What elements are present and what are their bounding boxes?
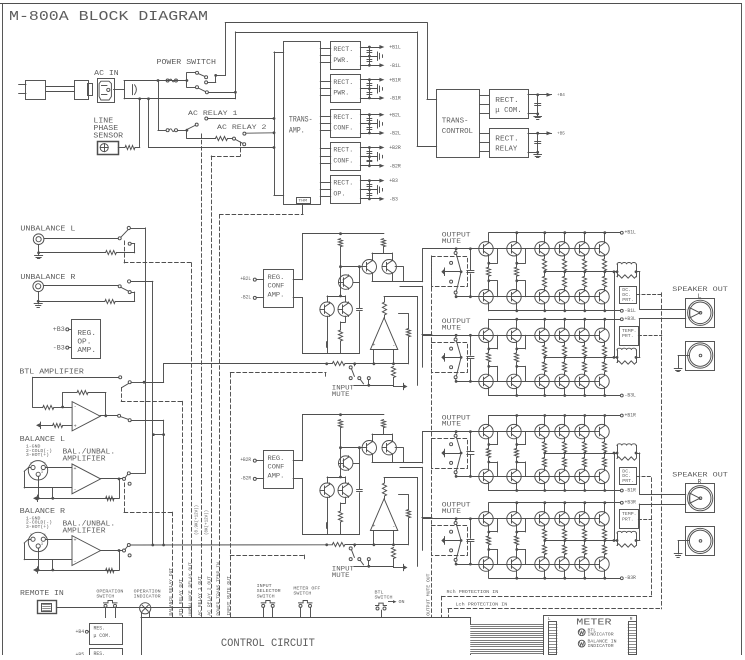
svg-text:OPERATION: OPERATION: [134, 588, 161, 594]
svg-text:+: +: [372, 343, 375, 349]
svg-text:RES.: RES.: [94, 626, 106, 632]
svg-text:PRT.: PRT.: [622, 298, 634, 303]
svg-text:CONF: CONF: [268, 464, 285, 471]
svg-text:BALANCE L: BALANCE L: [20, 436, 65, 444]
svg-text:AMP.: AMP.: [289, 127, 305, 136]
svg-text:+B2R: +B2R: [240, 457, 251, 463]
svg-text:POWER SWITCH: POWER SWITCH: [157, 59, 216, 67]
svg-text:METER OFF: METER OFF: [293, 586, 320, 592]
svg-text:AC IN: AC IN: [94, 70, 119, 78]
svg-text:+B3R: +B3R: [625, 500, 636, 506]
svg-text:3: 3: [41, 543, 43, 547]
svg-text:POWER TRANS TEMP IN: POWER TRANS TEMP IN: [215, 562, 221, 616]
svg-text:-B3R: -B3R: [625, 575, 636, 581]
svg-text:AC RELAY 2 OUT: AC RELAY 2 OUT: [207, 576, 213, 616]
svg-text:AMP.: AMP.: [268, 291, 285, 298]
svg-text:+B3L: +B3L: [625, 316, 636, 322]
svg-text:-B1R: -B1R: [625, 488, 636, 494]
svg-text:-B3L: -B3L: [625, 393, 636, 399]
svg-text:MUTE: MUTE: [442, 508, 461, 515]
svg-text:RECT.: RECT.: [333, 46, 353, 54]
svg-text:-B2R: -B2R: [389, 163, 401, 169]
svg-text:RECT.: RECT.: [333, 147, 353, 155]
svg-text:SWITCH: SWITCH: [257, 593, 275, 599]
svg-text:SWITCH: SWITCH: [96, 594, 114, 600]
svg-text:-: -: [74, 487, 77, 493]
svg-text:-: -: [74, 558, 77, 564]
svg-text:+B4: +B4: [557, 92, 565, 98]
svg-text:OP.: OP.: [333, 191, 345, 199]
svg-text:μ COM.: μ COM.: [495, 107, 521, 115]
svg-text:+B1R: +B1R: [625, 413, 636, 419]
svg-text:3: 3: [41, 471, 43, 475]
svg-text:+B5: +B5: [557, 130, 565, 136]
svg-text:2: 2: [30, 534, 32, 538]
svg-text:ON: ON: [399, 599, 405, 605]
svg-text:-B2L: -B2L: [240, 295, 251, 301]
svg-text:+B2L: +B2L: [389, 112, 401, 118]
svg-text:PRT.: PRT.: [622, 479, 634, 484]
svg-text:Lch PROTECTION IN: Lch PROTECTION IN: [456, 602, 508, 608]
svg-text:+B3: +B3: [389, 178, 398, 184]
svg-text:-: -: [392, 524, 395, 530]
svg-text:MUTE: MUTE: [442, 324, 461, 331]
svg-text:SELECTOR: SELECTOR: [257, 588, 281, 594]
svg-text:BALANCE R: BALANCE R: [20, 508, 66, 516]
svg-text:BTL: BTL: [375, 589, 384, 595]
svg-text:CONTROL CIRCUIT: CONTROL CIRCUIT: [221, 638, 315, 650]
svg-text:PRT.: PRT.: [622, 334, 634, 339]
svg-text:AMPLIFIER: AMPLIFIER: [63, 527, 107, 535]
svg-text:-B2R: -B2R: [240, 476, 251, 482]
svg-text:+B2L: +B2L: [240, 276, 251, 282]
svg-text:MUTE: MUTE: [332, 572, 350, 579]
svg-text:OPERATION: OPERATION: [96, 588, 123, 594]
svg-text:RECT.: RECT.: [333, 79, 353, 87]
svg-text:REMOTE IN: REMOTE IN: [20, 590, 64, 598]
svg-text:CONF.: CONF.: [333, 125, 353, 133]
svg-text:+: +: [372, 524, 375, 530]
svg-text:2: 2: [30, 462, 32, 466]
svg-text:(0K(+12V)): (0K(+12V)): [204, 510, 209, 535]
svg-text:RECT.: RECT.: [333, 114, 353, 122]
svg-text:+: +: [74, 466, 77, 472]
svg-text:REG.: REG.: [268, 274, 285, 281]
svg-text:SWITCH: SWITCH: [375, 594, 393, 600]
svg-text:INDICATOR: INDICATOR: [134, 594, 161, 600]
svg-text:+: +: [74, 424, 77, 430]
svg-text:+B1L: +B1L: [625, 230, 636, 236]
svg-text:RES.: RES.: [94, 651, 106, 655]
svg-text:1: 1: [44, 534, 46, 538]
svg-text:UNBALANCE L: UNBALANCE L: [20, 226, 75, 234]
svg-text:3-HOT(+): 3-HOT(+): [26, 453, 49, 458]
svg-text:AMPLIFIER: AMPLIFIER: [63, 456, 107, 464]
svg-text:3-HOT(+): 3-HOT(+): [26, 525, 49, 530]
svg-text:CONTROL: CONTROL: [442, 128, 473, 136]
svg-text:PWR.: PWR.: [333, 90, 349, 98]
svg-text:BTL AMPLIFIER: BTL AMPLIFIER: [19, 368, 84, 376]
svg-text:MUTE: MUTE: [442, 238, 461, 245]
svg-text:RELAY: RELAY: [495, 145, 518, 153]
svg-text:MUTE: MUTE: [442, 421, 461, 428]
svg-text:-: -: [392, 343, 395, 349]
svg-text:INPUT MUTE OUT: INPUT MUTE OUT: [226, 576, 232, 616]
svg-text:TRANS-: TRANS-: [289, 115, 313, 124]
svg-text:RECT.: RECT.: [495, 136, 518, 144]
svg-text:-: -: [74, 404, 77, 410]
svg-text:THM: THM: [298, 199, 307, 203]
svg-text:AMP.: AMP.: [77, 347, 96, 355]
svg-text:REG.: REG.: [77, 330, 96, 338]
svg-text:1: 1: [44, 462, 46, 466]
svg-text:R: R: [698, 478, 702, 486]
svg-text:AC RELAY 2: AC RELAY 2: [217, 124, 267, 132]
svg-text:L: L: [698, 293, 702, 301]
svg-text:-B1R: -B1R: [389, 96, 401, 102]
svg-text:-B2L: -B2L: [389, 131, 401, 137]
svg-text:BALANCE RELAY OUT: BALANCE RELAY OUT: [168, 568, 174, 616]
svg-text:-B1L: -B1L: [389, 63, 401, 69]
svg-text:AC RELAY 1: AC RELAY 1: [188, 110, 238, 118]
svg-text:METER: METER: [576, 617, 611, 628]
svg-text:+B2R: +B2R: [389, 145, 401, 151]
svg-text:TRANS-: TRANS-: [442, 118, 469, 126]
svg-text:UNBALANCE RELAY OUT: UNBALANCE RELAY OUT: [187, 562, 193, 616]
svg-text:+B4: +B4: [76, 629, 85, 635]
svg-text:MUTE: MUTE: [332, 391, 350, 398]
svg-text:BTL RELAY OUT: BTL RELAY OUT: [178, 579, 184, 616]
svg-text:M-800A BLOCK DIAGRAM: M-800A BLOCK DIAGRAM: [9, 9, 208, 25]
svg-text:RECT.: RECT.: [495, 97, 518, 105]
svg-text:OUTPUT MUTE OUT: OUTPUT MUTE OUT: [426, 573, 432, 615]
svg-text:+B3: +B3: [53, 326, 65, 333]
svg-text:REG.: REG.: [268, 455, 285, 462]
svg-text:+B1L: +B1L: [389, 45, 401, 51]
svg-text:SENSOR: SENSOR: [93, 133, 123, 141]
svg-text:-B3: -B3: [389, 197, 398, 203]
svg-text:SWITCH: SWITCH: [293, 591, 311, 597]
svg-text:+: +: [74, 538, 77, 544]
svg-text:-B1L: -B1L: [625, 308, 636, 314]
svg-text:PRT.: PRT.: [622, 517, 634, 522]
svg-text:PWR.: PWR.: [333, 57, 349, 65]
svg-text:AC RELAY 1 OUT: AC RELAY 1 OUT: [197, 576, 203, 616]
svg-text:AMP.: AMP.: [268, 472, 285, 479]
svg-text:+B1R: +B1R: [389, 77, 401, 83]
svg-text:INPUT: INPUT: [257, 583, 272, 589]
svg-text:UNBALANCE R: UNBALANCE R: [20, 274, 76, 282]
svg-text:INDICATOR: INDICATOR: [588, 634, 615, 638]
svg-text:OP.: OP.: [77, 339, 91, 347]
svg-text:CONF: CONF: [268, 283, 285, 290]
svg-text:CONF.: CONF.: [333, 157, 353, 165]
svg-text:μ COM.: μ COM.: [94, 633, 111, 639]
svg-text:Rch PROTECTION IN: Rch PROTECTION IN: [447, 589, 499, 595]
svg-text:(0.9K(+12V)): (0.9K(+12V)): [195, 505, 200, 535]
svg-text:RECT.: RECT.: [333, 180, 353, 188]
svg-text:INDICATOR: INDICATOR: [588, 645, 615, 649]
svg-text:-B3: -B3: [53, 344, 65, 351]
